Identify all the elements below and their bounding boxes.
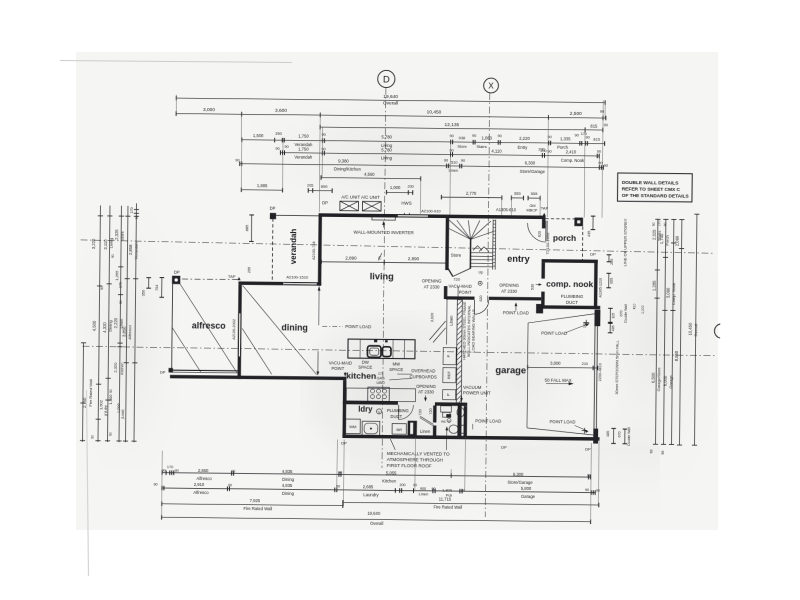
svg-text:90: 90 bbox=[604, 123, 608, 127]
svg-text:670: 670 bbox=[618, 431, 622, 437]
wall comp nook west stubs bbox=[541, 262, 545, 278]
svg-text:Dining/Kitchen: Dining/Kitchen bbox=[334, 166, 362, 171]
svg-text:205: 205 bbox=[610, 259, 614, 265]
svg-text:Store: Store bbox=[120, 230, 125, 240]
svg-text:entry: entry bbox=[507, 254, 530, 264]
wall comp nook north bbox=[542, 259, 598, 263]
svg-text:OVERHEAD: OVERHEAD bbox=[411, 368, 435, 373]
wall wc north bbox=[435, 402, 467, 406]
garage door east double line bbox=[594, 326, 595, 428]
dim row 1,885 205 890 1,000 200 bbox=[241, 189, 282, 191]
wall porch north dashed bbox=[545, 218, 574, 220]
wall mounted inverter bbox=[372, 216, 395, 220]
svg-text:4,835: 4,835 bbox=[282, 469, 293, 474]
svg-text:2,650: 2,650 bbox=[198, 468, 209, 473]
svg-text:HWS: HWS bbox=[401, 201, 411, 206]
svg-text:A2100-1510: A2100-1510 bbox=[286, 275, 309, 280]
dim row B verandah living 4,110 comp nook bbox=[280, 153, 599, 156]
svg-text:Store/Garage: Store/Garage bbox=[508, 480, 534, 485]
svg-text:5,780: 5,780 bbox=[381, 135, 392, 140]
svg-text:CT: CT bbox=[378, 372, 384, 376]
svg-text:170: 170 bbox=[657, 220, 661, 226]
svg-text:90: 90 bbox=[461, 489, 465, 493]
dim row 12,135 815 bbox=[320, 127, 603, 130]
horizontal grid dash-dot upper bbox=[81, 240, 713, 253]
wall wc east bbox=[463, 406, 467, 436]
dim 2,890 2,890 centerline bbox=[321, 262, 447, 263]
svg-text:90: 90 bbox=[461, 159, 465, 163]
svg-text:1,335: 1,335 bbox=[560, 136, 571, 141]
svg-text:MW: MW bbox=[393, 362, 401, 367]
svg-text:3,090: 3,090 bbox=[666, 287, 671, 298]
svg-text:LINE OF UPPER STOREY: LINE OF UPPER STOREY bbox=[622, 218, 628, 266]
svg-text:90: 90 bbox=[338, 470, 342, 474]
svg-text:DP: DP bbox=[322, 200, 328, 205]
svg-text:90: 90 bbox=[91, 435, 95, 439]
dim 885 vertical bbox=[250, 215, 252, 241]
wc duct shelves bbox=[441, 406, 452, 412]
svg-text:350: 350 bbox=[275, 131, 283, 136]
svg-text:6,300: 6,300 bbox=[525, 160, 536, 165]
svg-text:200: 200 bbox=[407, 185, 413, 189]
kitchen island bench bbox=[348, 339, 415, 359]
svg-text:Verandah: Verandah bbox=[133, 242, 138, 259]
svg-text:720: 720 bbox=[418, 409, 422, 415]
svg-text:90: 90 bbox=[586, 135, 590, 139]
wall laundry-kitchen bbox=[343, 401, 398, 405]
svg-text:A1305-610: A1305-610 bbox=[496, 207, 517, 212]
svg-text:90: 90 bbox=[135, 215, 139, 219]
svg-text:90: 90 bbox=[598, 161, 602, 165]
svg-text:170: 170 bbox=[130, 207, 134, 213]
svg-text:Laundry: Laundry bbox=[363, 492, 379, 497]
extension lines from top dims bbox=[175, 95, 177, 114]
dim 435 porch bbox=[592, 216, 594, 229]
svg-text:815: 815 bbox=[593, 137, 601, 142]
dining diagonals bbox=[242, 285, 318, 374]
svg-text:90: 90 bbox=[449, 149, 453, 153]
svg-text:DUCT: DUCT bbox=[390, 414, 402, 419]
svg-text:3,000: 3,000 bbox=[550, 361, 561, 366]
grid bubble right partial bbox=[714, 324, 720, 338]
svg-text:Stairs: Stairs bbox=[476, 144, 486, 149]
svg-text:Up: Up bbox=[478, 270, 483, 274]
svg-text:(Load): (Load) bbox=[121, 409, 125, 419]
svg-text:porch: porch bbox=[553, 233, 576, 243]
svg-text:A2100-718: A2100-718 bbox=[312, 241, 316, 260]
svg-text:5,800: 5,800 bbox=[521, 486, 532, 491]
svg-text:REFER TO SHEET CMX C: REFER TO SHEET CMX C bbox=[622, 186, 681, 193]
svg-text:Double Wall: Double Wall bbox=[627, 427, 631, 445]
svg-text:AT 2330: AT 2330 bbox=[501, 289, 518, 294]
svg-text:30mm STEPDOWN 5mm FALL: 30mm STEPDOWN 5mm FALL bbox=[614, 339, 620, 394]
stairs direction chevrons bbox=[473, 246, 482, 251]
svg-text:90: 90 bbox=[119, 300, 123, 304]
svg-text:Garage/Store: Garage/Store bbox=[656, 367, 661, 392]
svg-text:1,285: 1,285 bbox=[652, 280, 657, 291]
svg-text:A/C UNIT A/C UNIT: A/C UNIT A/C UNIT bbox=[341, 194, 380, 199]
svg-text:PLUMBING: PLUMBING bbox=[561, 294, 584, 299]
duct shaft black bbox=[408, 421, 417, 436]
svg-text:Alfresco: Alfresco bbox=[193, 490, 209, 495]
svg-text:Comp. Nook: Comp. Nook bbox=[561, 158, 585, 163]
alfresco roof dash line to tap bbox=[182, 278, 239, 281]
svg-text:485: 485 bbox=[611, 325, 615, 331]
svg-text:4,835: 4,835 bbox=[282, 483, 293, 488]
bottom extension lines bbox=[161, 451, 164, 518]
svg-text:1,063: 1,063 bbox=[481, 136, 492, 141]
svg-text:VACU-MAID: VACU-MAID bbox=[329, 360, 352, 365]
svg-text:3,600: 3,600 bbox=[275, 108, 287, 114]
svg-text:1,750: 1,750 bbox=[298, 134, 309, 139]
svg-text:AT 2330: AT 2330 bbox=[418, 389, 435, 394]
svg-text:2,090: 2,090 bbox=[675, 235, 680, 246]
svg-text:ldry: ldry bbox=[358, 404, 373, 413]
svg-text:T2130-1450: T2130-1450 bbox=[545, 232, 550, 254]
svg-text:POINT LOAD: POINT LOAD bbox=[541, 331, 567, 336]
svg-text:90: 90 bbox=[604, 164, 608, 168]
svg-text:6,300: 6,300 bbox=[513, 472, 524, 477]
grid line D vertical dash-dot bbox=[382, 88, 386, 468]
right small dims near garage wall bbox=[608, 255, 610, 262]
svg-text:510: 510 bbox=[451, 160, 459, 165]
svg-text:1,500: 1,500 bbox=[253, 133, 264, 138]
bottom dim row 4 overall bbox=[162, 517, 591, 521]
kitchen bench along south bbox=[346, 388, 415, 402]
svg-text:REF: REF bbox=[446, 371, 451, 380]
svg-text:Linen: Linen bbox=[419, 492, 429, 497]
svg-text:2,500: 2,500 bbox=[570, 111, 582, 117]
svg-text:555: 555 bbox=[514, 191, 522, 196]
svg-text:90: 90 bbox=[597, 150, 601, 154]
svg-text:OPENING: OPENING bbox=[416, 384, 437, 389]
svg-text:2,890: 2,890 bbox=[345, 256, 357, 261]
svg-text:115: 115 bbox=[611, 313, 615, 319]
svg-text:90: 90 bbox=[575, 133, 579, 137]
svg-text:1,885: 1,885 bbox=[257, 183, 268, 188]
svg-text:DP: DP bbox=[590, 251, 596, 256]
svg-text:CUPBOARDS: CUPBOARDS bbox=[410, 374, 437, 379]
svg-text:2,325: 2,325 bbox=[651, 229, 656, 240]
wall dining west bbox=[237, 285, 241, 379]
svg-text:Garage: Garage bbox=[668, 374, 673, 388]
wall wc west stubs bbox=[433, 405, 437, 422]
svg-text:A1305-1210: A1305-1210 bbox=[598, 278, 602, 298]
svg-text:2,220: 2,220 bbox=[113, 317, 118, 328]
grid bubble D bbox=[378, 70, 395, 87]
svg-text:1,740: 1,740 bbox=[659, 233, 664, 244]
svg-text:90: 90 bbox=[596, 489, 600, 493]
svg-text:POINT LOAD: POINT LOAD bbox=[475, 418, 501, 423]
stairs winder rays bbox=[449, 220, 471, 239]
wall wc-garage west lower bbox=[457, 404, 461, 438]
svg-text:DP: DP bbox=[501, 444, 507, 449]
svg-text:90: 90 bbox=[450, 134, 454, 138]
linen door diagonals bbox=[429, 321, 445, 340]
svg-text:170: 170 bbox=[167, 465, 173, 469]
svg-text:90: 90 bbox=[472, 134, 476, 138]
pantry and fridge boxes bbox=[443, 348, 456, 365]
wall comp nook south bbox=[538, 305, 601, 309]
svg-text:AT 2330: AT 2330 bbox=[424, 284, 441, 289]
svg-text:2,750: 2,750 bbox=[82, 397, 87, 408]
svg-text:2,858: 2,858 bbox=[128, 244, 133, 255]
svg-text:Dining: Dining bbox=[282, 491, 295, 496]
svg-text:555: 555 bbox=[531, 191, 539, 196]
note box double wall details bbox=[617, 173, 692, 202]
dim row A verandah living store stairs entry porch bbox=[242, 140, 605, 144]
left dim ticks bbox=[81, 342, 86, 344]
svg-text:VACUUM: VACUUM bbox=[463, 385, 482, 390]
svg-text:ATMOSPHERE THROUGH: ATMOSPHERE THROUGH bbox=[387, 457, 443, 463]
svg-text:90: 90 bbox=[663, 222, 667, 226]
porch NE post donut bbox=[574, 218, 583, 227]
stairs treads bbox=[471, 252, 493, 254]
svg-text:P: P bbox=[445, 393, 450, 396]
bottom dim row 1 bbox=[162, 473, 590, 477]
svg-text:90: 90 bbox=[322, 133, 326, 137]
svg-text:Porch: Porch bbox=[665, 235, 670, 246]
svg-text:verandah: verandah bbox=[289, 229, 298, 265]
svg-text:2,910: 2,910 bbox=[194, 482, 205, 487]
right dim columns bbox=[656, 219, 658, 444]
wall living north bbox=[319, 213, 398, 217]
hatched internal load bearing wall bbox=[456, 300, 462, 404]
svg-text:A2100-910: A2100-910 bbox=[421, 208, 441, 213]
svg-text:170: 170 bbox=[119, 282, 123, 288]
wall comp nook east bbox=[594, 260, 598, 309]
svg-text:6,000: 6,000 bbox=[663, 375, 668, 386]
svg-text:1,000: 1,000 bbox=[108, 394, 113, 405]
svg-text:3,220: 3,220 bbox=[91, 238, 96, 249]
svg-text:4,500: 4,500 bbox=[92, 320, 97, 331]
svg-text:OPENING: OPENING bbox=[422, 278, 443, 283]
svg-text:3,850: 3,850 bbox=[122, 326, 127, 337]
svg-text:2,770: 2,770 bbox=[466, 191, 477, 196]
laundry trough bbox=[362, 421, 380, 436]
svg-text:P: P bbox=[446, 354, 451, 357]
svg-text:90: 90 bbox=[235, 158, 239, 162]
svg-text:90: 90 bbox=[498, 134, 502, 138]
garage NE post bbox=[594, 310, 600, 327]
svg-text:11,715: 11,715 bbox=[439, 497, 452, 502]
svg-text:Dining: Dining bbox=[108, 320, 113, 331]
svg-text:2,320: 2,320 bbox=[113, 362, 118, 373]
svg-text:2,685: 2,685 bbox=[363, 484, 374, 489]
svg-text:50 FALL MAX: 50 FALL MAX bbox=[545, 377, 572, 382]
svg-text:2,410: 2,410 bbox=[566, 149, 577, 154]
alfresco south double edge bbox=[170, 369, 238, 372]
svg-text:living: living bbox=[370, 271, 394, 281]
svg-text:890: 890 bbox=[321, 184, 329, 189]
svg-text:720: 720 bbox=[453, 277, 461, 282]
svg-text:kitchen: kitchen bbox=[346, 371, 376, 381]
right dim ticks bbox=[655, 218, 660, 220]
svg-text:POINT LOAD: POINT LOAD bbox=[550, 419, 576, 424]
wall verandah-living west bbox=[318, 213, 322, 285]
svg-text:OF THE STANDARD DETAILS: OF THE STANDARD DETAILS bbox=[622, 193, 690, 200]
svg-text:Living: Living bbox=[381, 155, 393, 160]
svg-text:754: 754 bbox=[155, 285, 159, 291]
svg-text:4,110: 4,110 bbox=[491, 148, 502, 153]
wall entry-porch divider stub bbox=[542, 216, 546, 229]
vent symbol laundry bbox=[377, 409, 382, 414]
dim 350 vertical bbox=[148, 278, 150, 288]
svg-text:POINT: POINT bbox=[331, 366, 344, 371]
svg-text:LOAD BEARING WALLS: LOAD BEARING WALLS bbox=[471, 309, 476, 353]
svg-text:Kitchen: Kitchen bbox=[120, 363, 124, 375]
svg-text:938: 938 bbox=[459, 135, 467, 140]
alfresco SW post bbox=[169, 368, 173, 372]
wall bottom laundry-wc-garage bbox=[342, 435, 599, 441]
svg-text:Overall: Overall bbox=[383, 101, 398, 107]
svg-text:3,000: 3,000 bbox=[203, 107, 215, 113]
svg-text:TAP: TAP bbox=[541, 206, 549, 211]
svg-text:19,640: 19,640 bbox=[367, 511, 381, 516]
svg-text:DP: DP bbox=[585, 446, 591, 451]
svg-text:Linen: Linen bbox=[448, 168, 458, 173]
porch east edge dashed bbox=[581, 227, 583, 260]
svg-text:620: 620 bbox=[538, 231, 542, 237]
svg-text:3,110: 3,110 bbox=[103, 239, 108, 250]
svg-text:POINT LOAD: POINT LOAD bbox=[503, 310, 529, 315]
grid line X vertical dash-dot bbox=[485, 93, 489, 517]
svg-text:A2100-2002: A2100-2002 bbox=[232, 319, 236, 340]
dim row overall 19,640 bbox=[176, 98, 605, 102]
svg-text:Store: Store bbox=[457, 144, 467, 149]
svg-text:Linen: Linen bbox=[449, 315, 454, 326]
svg-text:VACU-MAID: VACU-MAID bbox=[449, 284, 472, 289]
island sink bbox=[367, 346, 381, 358]
dim row 4,560 bbox=[321, 178, 421, 179]
svg-text:WALL-MOUNTED INVERTER: WALL-MOUNTED INVERTER bbox=[354, 229, 415, 235]
svg-text:Double Wall: Double Wall bbox=[624, 304, 628, 322]
svg-text:Living: Living bbox=[109, 238, 114, 249]
svg-text:1,750: 1,750 bbox=[298, 146, 309, 151]
broom cupboard bbox=[392, 424, 406, 435]
svg-text:Store/Garage: Store/Garage bbox=[520, 169, 546, 174]
svg-text:820: 820 bbox=[479, 295, 483, 301]
svg-text:205: 205 bbox=[247, 267, 251, 273]
stairs newel line bbox=[469, 239, 471, 268]
svg-text:530: 530 bbox=[531, 284, 535, 290]
svg-text:10,450: 10,450 bbox=[687, 322, 692, 336]
svg-text:90: 90 bbox=[109, 432, 113, 436]
svg-text:1,000: 1,000 bbox=[641, 305, 645, 314]
svg-text:90: 90 bbox=[585, 488, 589, 492]
svg-text:655: 655 bbox=[610, 278, 614, 284]
svg-text:g'd.dry: g'd.dry bbox=[104, 405, 108, 416]
alfresco NW post with DP bbox=[172, 276, 180, 284]
svg-text:SPACE: SPACE bbox=[389, 367, 403, 372]
svg-text:8,860: 8,860 bbox=[674, 350, 679, 361]
garage SE post bbox=[593, 429, 598, 444]
svg-text:comp. nook: comp. nook bbox=[546, 279, 593, 289]
svg-text:5,055: 5,055 bbox=[386, 471, 397, 476]
alfresco west edge bbox=[171, 284, 174, 370]
verandah edge lines bbox=[271, 218, 274, 281]
stairs east edge rail bbox=[492, 220, 495, 270]
wall stairs west bbox=[445, 215, 449, 271]
svg-text:90: 90 bbox=[100, 286, 104, 290]
svg-text:DOUBLE WALL DETAILS: DOUBLE WALL DETAILS bbox=[622, 180, 679, 187]
svg-text:90: 90 bbox=[228, 483, 232, 487]
svg-text:Verandah: Verandah bbox=[294, 155, 313, 160]
svg-text:Store: Store bbox=[451, 252, 462, 257]
svg-text:9,380: 9,380 bbox=[338, 158, 349, 163]
svg-text:garage: garage bbox=[495, 364, 526, 375]
svg-text:12,135: 12,135 bbox=[444, 122, 459, 128]
svg-text:Alfresco: Alfresco bbox=[197, 476, 213, 481]
svg-text:POWER UNIT: POWER UNIT bbox=[463, 390, 491, 395]
svg-text:Entry: Entry bbox=[518, 145, 529, 150]
wc basin bbox=[457, 408, 464, 417]
horizontal grid dash-dot lower bbox=[82, 346, 715, 355]
svg-text:DP: DP bbox=[174, 270, 180, 275]
svg-text:210: 210 bbox=[582, 362, 588, 366]
svg-text:19,640: 19,640 bbox=[383, 94, 398, 100]
A/C unit boxes bbox=[340, 201, 359, 211]
svg-text:90: 90 bbox=[109, 389, 113, 393]
svg-text:Alfresco: Alfresco bbox=[127, 324, 132, 339]
laundry door arc bbox=[399, 405, 414, 420]
verandah NW post bbox=[270, 213, 276, 219]
alfresco diagonals bbox=[179, 283, 238, 372]
svg-text:5,780: 5,780 bbox=[381, 147, 392, 152]
svg-text:PLUMBING: PLUMBING bbox=[387, 408, 409, 413]
dim row 3,000 3,600 10,450 2,500 bbox=[176, 114, 606, 118]
svg-text:90: 90 bbox=[661, 451, 665, 455]
svg-text:410: 410 bbox=[632, 304, 636, 310]
svg-text:Kitchen: Kitchen bbox=[382, 478, 397, 483]
svg-text:90: 90 bbox=[321, 147, 325, 151]
bottom dim row 3 fire rated walls bbox=[162, 504, 343, 506]
svg-text:alfresco: alfresco bbox=[192, 320, 226, 330]
svg-text:2,890: 2,890 bbox=[408, 256, 420, 261]
bottom dim row 2 bbox=[162, 488, 595, 493]
paper background wash bbox=[76, 52, 718, 530]
svg-text:GAS: GAS bbox=[377, 376, 386, 380]
svg-text:wc: wc bbox=[441, 419, 446, 424]
svg-text:X: X bbox=[488, 81, 494, 90]
wall south main alfresco-dining-kitchen bbox=[170, 375, 346, 380]
wall A2100-1510 verandah south bbox=[238, 281, 283, 285]
svg-text:Overall: Overall bbox=[370, 521, 383, 526]
dim 754 vertical bbox=[161, 278, 163, 298]
svg-text:90: 90 bbox=[652, 222, 656, 226]
svg-text:435: 435 bbox=[587, 231, 591, 237]
svg-text:485: 485 bbox=[606, 431, 610, 437]
svg-text:205: 205 bbox=[307, 184, 313, 188]
svg-text:Fire Rated Wall: Fire Rated Wall bbox=[243, 506, 272, 511]
svg-text:720: 720 bbox=[429, 408, 433, 414]
svg-text:140: 140 bbox=[583, 322, 587, 328]
svg-text:UBO: UBO bbox=[376, 381, 384, 385]
washing machine bbox=[345, 419, 360, 434]
svg-text:Dining: Dining bbox=[282, 477, 295, 482]
svg-text:MBCP: MBCP bbox=[526, 208, 537, 212]
garage door recess lines bbox=[527, 323, 528, 428]
svg-text:dining: dining bbox=[281, 322, 307, 332]
svg-text:BR: BR bbox=[396, 427, 402, 432]
svg-text:2200-4810: 2200-4810 bbox=[598, 363, 602, 381]
svg-text:900: 900 bbox=[420, 487, 426, 491]
svg-text:90: 90 bbox=[231, 469, 235, 473]
faint paper edge bottom left bbox=[87, 390, 89, 576]
svg-text:Overall: Overall bbox=[693, 324, 698, 337]
left dim columns bbox=[82, 343, 83, 442]
svg-text:DW: DW bbox=[362, 360, 369, 365]
